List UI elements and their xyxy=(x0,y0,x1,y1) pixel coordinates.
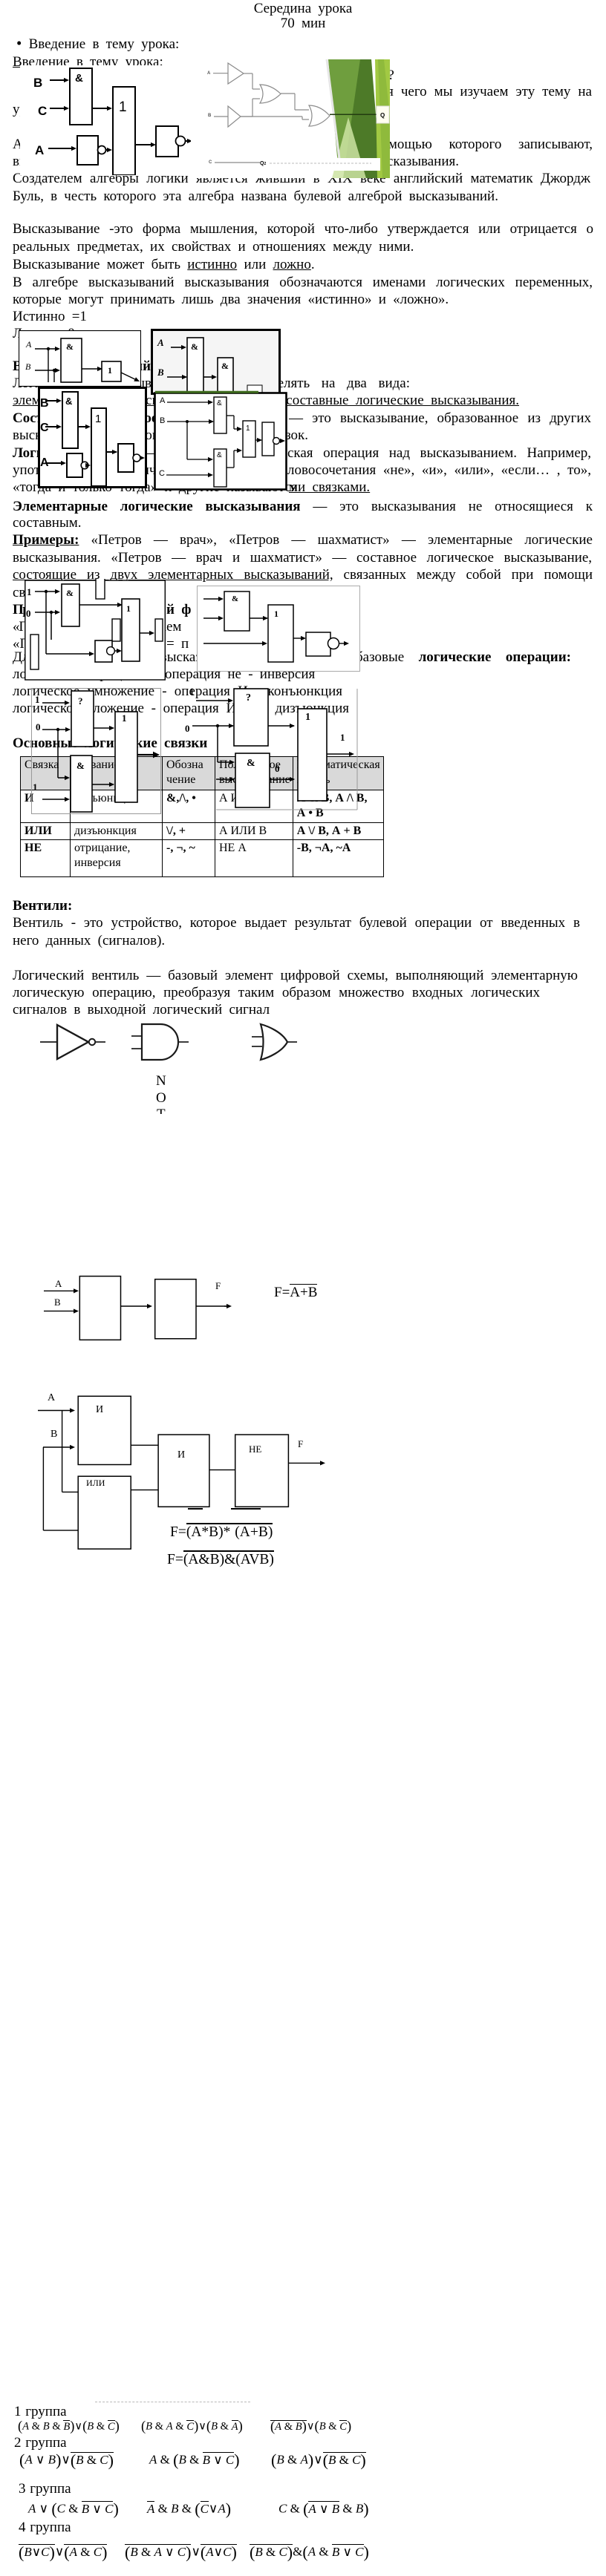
wire input 1 xyxy=(35,591,55,592)
svg-text:1: 1 xyxy=(27,586,32,597)
inversion bubble xyxy=(273,438,280,445)
AND gate (&) xyxy=(62,584,79,626)
svg-text:1: 1 xyxy=(95,413,101,425)
AND gate (&) xyxy=(235,753,270,807)
OR gate (1) xyxy=(115,712,137,802)
wire A input xyxy=(44,1290,74,1291)
wire U1 to U3 xyxy=(131,1444,158,1446)
wire AND2 to OR xyxy=(227,467,234,468)
wire B branch to AND2 xyxy=(186,422,188,459)
wire AND lower input xyxy=(216,779,229,780)
wire A input xyxy=(167,402,208,403)
wire B branch to OR2 xyxy=(241,116,302,117)
svg-text:A: A xyxy=(207,71,211,76)
svg-text:1: 1 xyxy=(119,99,127,115)
svg-text:&: & xyxy=(232,594,238,603)
svg-text:B: B xyxy=(157,367,164,378)
wire B input xyxy=(50,79,64,81)
wire AND to OR xyxy=(270,779,294,780)
node Q output box xyxy=(377,106,389,123)
wire AND input A xyxy=(131,1035,142,1037)
OR gate U4 xyxy=(309,105,330,126)
svg-text:1: 1 xyxy=(33,781,38,793)
OR gate (1) xyxy=(243,421,255,457)
small blank box xyxy=(247,385,262,394)
wire ? to OR xyxy=(94,727,114,729)
svg-text:1: 1 xyxy=(108,365,112,376)
svg-text:A: A xyxy=(35,143,44,157)
wire A branch to OR xyxy=(62,1411,63,1492)
picture frame xyxy=(25,580,166,680)
inversion bubble DD3 xyxy=(98,146,106,154)
svg-text:A: A xyxy=(160,396,166,405)
OR gate DD2 (1) xyxy=(113,87,135,175)
wire output xyxy=(137,754,153,756)
green stripe bright xyxy=(375,59,390,178)
AND gate (&) xyxy=(224,591,250,631)
wire F output xyxy=(196,1305,227,1307)
wire branch to AND xyxy=(57,730,59,778)
NOT gate U4 (НЕ) xyxy=(235,1435,289,1507)
wire B input xyxy=(35,370,55,371)
wire U1 to OR1 xyxy=(244,73,252,74)
blank box top xyxy=(96,578,105,599)
svg-text:&: & xyxy=(66,588,74,598)
NOT gate box xyxy=(95,640,112,662)
wire ? to OR xyxy=(268,725,294,727)
svg-text:1: 1 xyxy=(126,603,131,614)
blank box right xyxy=(155,619,163,641)
svg-text:И: И xyxy=(96,1404,103,1415)
wire output xyxy=(339,643,344,644)
svg-text:И: И xyxy=(177,1449,185,1461)
svg-text:B: B xyxy=(33,76,42,90)
blank box left xyxy=(30,635,39,669)
svg-text:B: B xyxy=(40,397,49,410)
wire AND1 to OR xyxy=(227,415,234,416)
wire input 1 xyxy=(42,702,65,704)
NOT inversion bubble xyxy=(89,1039,95,1045)
buffer gate U1 xyxy=(228,63,244,84)
svg-text:&: & xyxy=(76,760,85,771)
svg-text:0: 0 xyxy=(36,721,41,733)
OR gate (1) xyxy=(298,709,327,801)
wire A input xyxy=(171,347,181,348)
picture frame xyxy=(155,393,287,490)
picture background xyxy=(20,65,191,175)
picture frame xyxy=(152,330,280,394)
wire OR output xyxy=(135,144,154,145)
wire AND to OR xyxy=(92,784,114,785)
wire OR input A xyxy=(252,1036,262,1038)
OR gate U3 xyxy=(260,85,281,103)
inversion bubble DD4 xyxy=(176,137,186,146)
wire OR to NOT xyxy=(293,638,304,639)
svg-text:&: & xyxy=(191,341,198,352)
wire box1 to box2 xyxy=(121,1305,151,1307)
wire AND to OR xyxy=(92,108,107,109)
green stripe medium xyxy=(328,59,369,178)
wire A input xyxy=(48,148,71,149)
wire OR output xyxy=(287,1041,297,1043)
wire A branch down xyxy=(48,349,49,382)
svg-text:НЕ: НЕ xyxy=(249,1443,261,1455)
svg-text:C: C xyxy=(209,160,212,165)
NOT gate box xyxy=(262,422,274,456)
wire B branch to OR xyxy=(42,1447,44,1530)
wire output xyxy=(140,457,140,459)
AND gate 2 (&) xyxy=(214,449,227,487)
unknown gate (?) xyxy=(71,691,94,747)
svg-text:B: B xyxy=(160,416,165,425)
wire NOT output xyxy=(95,1041,105,1043)
wire U3 to U4 xyxy=(209,1469,235,1471)
svg-text:A: A xyxy=(48,1392,56,1403)
AND gate DD1 (&) xyxy=(70,68,92,125)
wire C input xyxy=(166,474,208,476)
wire output xyxy=(121,373,135,379)
wire input 1b xyxy=(42,799,65,800)
wire B input xyxy=(167,376,186,378)
OR gate U2 (ИЛИ) xyxy=(78,1476,131,1549)
svg-text:1: 1 xyxy=(340,732,345,743)
wire C xyxy=(215,162,260,163)
wire B input xyxy=(214,116,228,117)
svg-text:0: 0 xyxy=(26,608,31,619)
NOT gate box xyxy=(67,453,82,477)
wire input 3 xyxy=(203,643,262,644)
slide background xyxy=(191,43,390,178)
wire output xyxy=(327,753,349,755)
wire A input xyxy=(45,462,61,464)
wire branch down xyxy=(50,612,52,640)
svg-text:F: F xyxy=(298,1438,303,1449)
AND gate 1 (&) xyxy=(214,397,227,433)
svg-text:&: & xyxy=(75,72,83,85)
svg-text:&: & xyxy=(247,758,255,769)
svg-text:ИЛИ: ИЛИ xyxy=(86,1478,105,1488)
NOT gate box xyxy=(306,632,330,656)
picture frame right xyxy=(356,689,358,810)
wire C input xyxy=(45,426,56,427)
wire A input xyxy=(38,1410,70,1412)
svg-text:&: & xyxy=(65,396,72,407)
wire AND to OR xyxy=(250,617,267,619)
wire Q output xyxy=(330,114,377,115)
wire input 1 xyxy=(196,700,228,701)
wire AND1 to AND2 xyxy=(203,376,212,378)
svg-text:?: ? xyxy=(78,695,83,707)
dashed wire Q2 xyxy=(270,163,371,164)
wire OR input B xyxy=(252,1046,262,1047)
wire input 0 xyxy=(35,612,55,613)
inversion bubble xyxy=(107,647,115,655)
unknown gate (?) xyxy=(234,689,268,746)
AND gate 2 (&) xyxy=(218,358,233,394)
AND gate U1 (И) xyxy=(78,1396,131,1464)
AND gate 1 (&) xyxy=(187,338,203,394)
svg-text:C: C xyxy=(159,469,165,478)
wire B input xyxy=(43,1446,70,1448)
wire B input xyxy=(45,400,56,402)
wire AND to OR xyxy=(78,426,85,427)
NOT gate DD4 box xyxy=(156,126,178,157)
wire NOT to OR xyxy=(85,465,88,466)
wire B input xyxy=(167,421,213,422)
picture frame xyxy=(198,586,360,672)
wire A input xyxy=(213,73,228,74)
svg-text:&: & xyxy=(66,341,74,352)
AND gate (&) xyxy=(71,756,92,812)
AND gate (&) xyxy=(61,338,82,382)
wire U2 to OR1 xyxy=(241,116,252,117)
green stripe dark xyxy=(343,59,381,178)
wire OR output xyxy=(140,632,153,634)
wire output xyxy=(279,440,281,442)
svg-text:&: & xyxy=(217,399,222,407)
svg-text:B: B xyxy=(208,114,212,118)
svg-text:0: 0 xyxy=(275,763,280,774)
OR gate (1) xyxy=(91,408,106,486)
NOT letters under AND gate xyxy=(149,1069,178,1114)
wire input 0 xyxy=(192,725,233,727)
wire NOT to OR xyxy=(106,149,107,151)
picture frame bottom xyxy=(216,809,357,810)
gate box 2 xyxy=(155,1279,196,1339)
wire AND to OR xyxy=(82,368,102,370)
buffer gate U2 xyxy=(228,106,241,127)
svg-text:A: A xyxy=(55,1278,62,1289)
blank box middle xyxy=(112,619,120,641)
green stripe pale xyxy=(332,117,366,178)
wire F output xyxy=(288,1462,320,1464)
wire AND to OR xyxy=(79,604,122,606)
OR gate shape xyxy=(261,1024,287,1060)
svg-text:A: A xyxy=(25,339,32,350)
svg-text:C: C xyxy=(40,422,49,434)
picture frame xyxy=(39,388,146,488)
AND gate (&) xyxy=(62,392,78,448)
svg-text:1: 1 xyxy=(122,712,127,724)
green top edge xyxy=(155,391,258,393)
svg-text:?: ? xyxy=(246,692,251,704)
wire branch to NOT xyxy=(45,591,47,654)
wire OR to NOT xyxy=(255,439,261,441)
NOT gate DD3 box xyxy=(77,136,98,165)
wire A input xyxy=(35,348,55,350)
wire B branch down xyxy=(53,370,55,382)
svg-text:Q2: Q2 xyxy=(260,161,266,166)
svg-text:1: 1 xyxy=(305,712,310,723)
NOT gate 2 box xyxy=(118,444,134,472)
wire branch to AND xyxy=(217,726,218,762)
wire input 1 xyxy=(203,598,218,600)
wire C input xyxy=(50,108,64,109)
picture frame xyxy=(19,331,141,387)
svg-text:F: F xyxy=(215,1280,221,1291)
gate box 1 xyxy=(79,1276,120,1340)
OR gate (1) xyxy=(102,361,121,381)
svg-text:A: A xyxy=(157,337,164,348)
wire input 2 xyxy=(203,617,218,619)
svg-text:Q: Q xyxy=(380,112,385,119)
wire OR output xyxy=(106,451,117,453)
inversion bubble 2 xyxy=(133,454,140,462)
wire input 0 xyxy=(42,729,70,730)
inversion bubble xyxy=(81,462,88,469)
svg-text:C: C xyxy=(38,104,47,118)
picture frame xyxy=(32,689,161,814)
white diagonal slash xyxy=(327,59,340,165)
OR gate (1) xyxy=(122,599,140,661)
svg-text:B: B xyxy=(50,1429,57,1440)
svg-text:1: 1 xyxy=(35,694,40,705)
green stripe mid xyxy=(378,59,390,178)
svg-text:1: 1 xyxy=(274,609,278,619)
svg-text:&: & xyxy=(217,451,222,459)
AND gate U3 (И) xyxy=(158,1435,209,1507)
OR gate (1) xyxy=(268,605,293,662)
wire NOT to OR xyxy=(115,650,117,652)
wire B input xyxy=(44,1311,74,1312)
svg-text:B: B xyxy=(25,361,31,372)
wire AND output xyxy=(178,1041,189,1043)
wire NOT input xyxy=(40,1041,57,1043)
wire U3 to OR2 xyxy=(281,93,295,94)
NOT gate triangle xyxy=(57,1025,88,1059)
wire U2 to U3 xyxy=(131,1489,158,1491)
wire AND input B xyxy=(131,1048,142,1049)
wire output xyxy=(186,140,187,142)
white caption strip xyxy=(316,158,380,171)
svg-text:&: & xyxy=(221,361,229,371)
svg-text:0: 0 xyxy=(185,723,190,734)
inversion bubble xyxy=(328,638,339,649)
svg-text:1: 1 xyxy=(246,425,250,433)
svg-text:1: 1 xyxy=(189,686,195,697)
svg-text:B: B xyxy=(54,1297,61,1308)
AND gate shape xyxy=(142,1024,178,1060)
